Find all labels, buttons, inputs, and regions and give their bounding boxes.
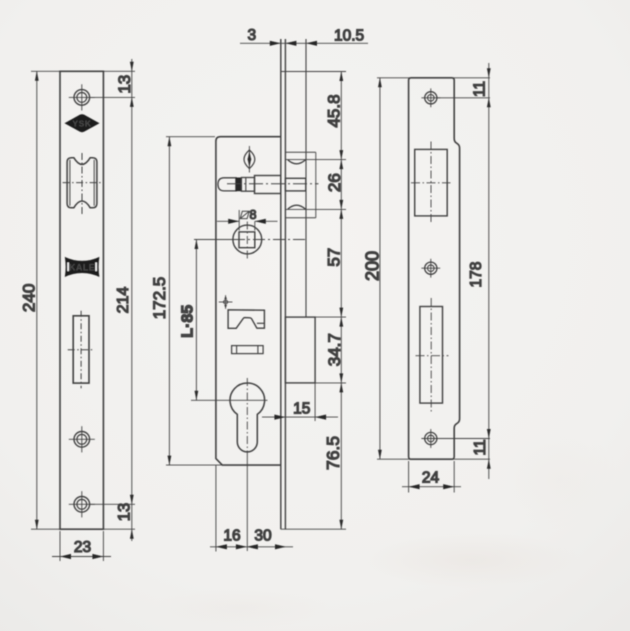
latch centre line bbox=[227, 183, 319, 185]
strike plate outline with side bump bbox=[409, 78, 460, 459]
cylinder centre line horizontal bbox=[191, 399, 268, 401]
bracket / stop plate bbox=[228, 310, 264, 329]
dimension square-8 label bbox=[240, 211, 249, 218]
svg-text:13: 13 bbox=[115, 75, 134, 94]
dimension chain line 11/178/11 bbox=[488, 63, 490, 479]
pin / slider bar bbox=[232, 346, 264, 354]
roller bolt bbox=[63, 153, 101, 214]
strike screw hole bottom bbox=[421, 429, 440, 448]
case bottom extension for 172.5 bbox=[166, 464, 281, 466]
faceplate edge-on back line bbox=[284, 39, 286, 529]
strip latch-hole lower arc bbox=[288, 205, 306, 209]
dimension 16/30 line bbox=[210, 546, 293, 548]
ext line y=159.6 bbox=[285, 159, 346, 161]
svg-text:178: 178 bbox=[468, 262, 485, 288]
svg-text:10.5: 10.5 bbox=[334, 27, 364, 44]
ext line y=382.9 bbox=[315, 382, 346, 384]
KALE banner logo bbox=[65, 257, 100, 277]
svg-text:23: 23 bbox=[74, 539, 91, 556]
dimension chain line 13/214/13 bbox=[131, 59, 133, 541]
svg-text:8: 8 bbox=[250, 208, 257, 222]
faceplate edge-on front line bbox=[280, 39, 282, 529]
extension from bottom screw to 11/178 dim bbox=[436, 438, 490, 440]
svg-text:3: 3 bbox=[247, 27, 256, 44]
follower centre line horizontal bbox=[194, 239, 233, 241]
bottom extension line y=529.2 bbox=[31, 528, 135, 530]
latch nose through strip bbox=[285, 178, 305, 191]
dimension 8 ticks bbox=[238, 210, 240, 231]
svg-text:172.5: 172.5 bbox=[150, 277, 169, 320]
ext line y=317.1 bbox=[315, 316, 346, 318]
svg-text:200: 200 bbox=[363, 251, 383, 281]
cylinder centre line vertical bbox=[246, 378, 248, 458]
latch dark block bbox=[235, 178, 241, 192]
dimension L-85 line bbox=[195, 240, 197, 401]
svg-text:11: 11 bbox=[472, 439, 489, 455]
right chain dimension line 45.8/26/57/34.7/76.5 bbox=[340, 72, 342, 530]
svg-text:11: 11 bbox=[472, 81, 489, 97]
svg-text:214: 214 bbox=[115, 287, 132, 314]
strike latch hole bbox=[411, 142, 451, 225]
strip bottom extension bbox=[281, 528, 346, 530]
dimension 3 / 10.5 top line bbox=[240, 42, 368, 44]
svg-text:57: 57 bbox=[324, 248, 343, 267]
centre mark bbox=[219, 295, 233, 309]
latch head inside case bbox=[255, 176, 281, 194]
dimension 8 arrows bbox=[217, 220, 239, 222]
dimension 23 line bbox=[52, 556, 111, 558]
follower centre line vertical bbox=[246, 222, 248, 259]
lock case outline bbox=[216, 137, 281, 465]
dimension 15 line bbox=[262, 416, 338, 418]
deadbolt thrown bbox=[285, 317, 315, 383]
dimension 200 line bbox=[379, 78, 381, 459]
latch mid body bbox=[241, 178, 254, 192]
svg-text:16: 16 bbox=[223, 528, 240, 545]
strike deadbolt slot bbox=[416, 298, 449, 412]
extension line from bottom screw to 13-dim bbox=[89, 503, 135, 505]
dimension 23 extension lines bbox=[59, 531, 61, 561]
svg-text:15: 15 bbox=[293, 401, 310, 418]
dimension 240 line bbox=[36, 71, 38, 529]
latch tail (spring guide) bbox=[218, 178, 236, 191]
dimension 172.5 line bbox=[168, 137, 170, 465]
euro cylinder hole bbox=[230, 383, 265, 452]
strip latch-hole upper arc bbox=[288, 160, 306, 164]
case top extension for 172.5 bbox=[166, 136, 215, 138]
dimension 16/30 extension lines bbox=[215, 465, 217, 551]
faceplate outline bbox=[60, 71, 103, 529]
latch guide box bottom bbox=[285, 217, 315, 219]
svg-text:30: 30 bbox=[254, 528, 272, 545]
svg-text:24: 24 bbox=[422, 470, 440, 487]
svg-text:240: 240 bbox=[20, 284, 39, 312]
svg-text:13: 13 bbox=[116, 503, 134, 521]
svg-text:L·85: L·85 bbox=[180, 305, 197, 338]
svg-text:76.5: 76.5 bbox=[323, 436, 343, 470]
plate bottom edge extension bbox=[377, 458, 490, 460]
ext line y=209.4 bbox=[285, 208, 346, 210]
extension line from top screw to 13-dim bbox=[89, 96, 135, 98]
latch projection extension line x=306 bbox=[305, 39, 307, 317]
plate top edge extension bbox=[377, 77, 490, 79]
deadbolt face extension line down bbox=[314, 383, 316, 421]
deadbolt slot in faceplate bbox=[68, 311, 94, 389]
dimension 24 line bbox=[402, 486, 461, 488]
svg-text:45.8: 45.8 bbox=[325, 94, 344, 127]
cylinder centre extension down to 16/30 dim bbox=[246, 458, 248, 551]
svg-text:KALE: KALE bbox=[69, 262, 95, 272]
faint scan blotches bbox=[360, 532, 580, 588]
strike screw hole top bbox=[421, 88, 440, 107]
adjuster lens with arrows bbox=[244, 146, 255, 173]
square follower circle bbox=[233, 225, 262, 254]
screw hole top bbox=[69, 84, 95, 110]
square follower 8mm square bbox=[239, 232, 255, 248]
svg-text:34.7: 34.7 bbox=[325, 333, 344, 366]
top extension line y=71.3 bbox=[31, 70, 135, 72]
extension from top screw to 11/178 dim bbox=[436, 97, 490, 99]
screw hole mid-low bbox=[69, 426, 95, 452]
screw hole bottom bbox=[69, 491, 95, 517]
svg-text:26: 26 bbox=[325, 173, 344, 192]
dimension 24 extension lines bbox=[408, 461, 410, 493]
latch guide box right edge bbox=[315, 152, 317, 218]
strip top edge extension bbox=[281, 71, 346, 73]
YSK diamond logo bbox=[65, 114, 100, 132]
strike screw hole middle bbox=[421, 259, 440, 278]
latch guide box top bbox=[285, 151, 315, 153]
svg-text:YSK: YSK bbox=[72, 118, 92, 128]
